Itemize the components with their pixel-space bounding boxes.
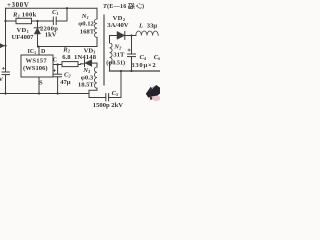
junction dot VD2-L-C4 xyxy=(130,34,132,36)
svg-text:VD1: VD1 xyxy=(17,27,30,34)
IC U1 WS157 box xyxy=(21,55,53,77)
photo fragment dark blob xyxy=(146,85,161,101)
wire VD3 to winding N3 top xyxy=(96,63,98,67)
capacitor C0 input bulk electrolytic xyxy=(2,67,10,74)
svg-text:N1: N1 xyxy=(81,13,89,20)
svg-text:1N4148: 1N4148 xyxy=(74,54,97,61)
wire C1 up to rail xyxy=(66,8,68,21)
svg-text:φ0.3: φ0.3 xyxy=(81,74,94,81)
inductor L xyxy=(136,31,158,36)
node A junction dot xyxy=(36,20,38,22)
svg-text:C6: C6 xyxy=(154,54,160,61)
node dot on left rail at R1 xyxy=(4,20,6,22)
svg-text:6.8: 6.8 xyxy=(62,54,71,61)
drain node dot xyxy=(37,45,39,47)
wire +300V top rail xyxy=(6,7,98,9)
svg-text:31T: 31T xyxy=(113,51,125,58)
svg-text:1kV: 1kV xyxy=(45,31,57,38)
junction dot C4 on negative rail xyxy=(130,70,132,72)
junction dot ground S pin xyxy=(38,92,40,94)
svg-text:IC1: IC1 xyxy=(28,49,37,55)
winding N3 feedback xyxy=(94,67,97,88)
svg-text:φ0.12: φ0.12 xyxy=(78,21,94,28)
diode VD3 xyxy=(81,60,98,67)
ground rail primary xyxy=(0,93,89,95)
svg-text:UF4007: UF4007 xyxy=(12,34,35,41)
pin C wire xyxy=(53,64,62,66)
svg-text:VD2: VD2 xyxy=(113,15,126,22)
svg-text:3A/40V: 3A/40V xyxy=(107,22,128,29)
pin D wire xyxy=(38,47,40,56)
svg-text:V: V xyxy=(0,76,4,83)
junction dot on rail xyxy=(66,7,68,9)
junction dot C5 on negative rail xyxy=(120,70,122,72)
capacitor C2 xyxy=(53,65,61,94)
svg-text:C4: C4 xyxy=(140,54,147,61)
svg-text:1500p 2kV: 1500p 2kV xyxy=(93,102,123,109)
svg-text:168T: 168T xyxy=(80,28,95,35)
pin S wire xyxy=(38,77,40,94)
resistor R2 xyxy=(62,62,81,67)
junction dot ground left xyxy=(4,92,6,94)
svg-text:47μ: 47μ xyxy=(60,79,71,86)
svg-text:WS157: WS157 xyxy=(26,58,48,65)
svg-text:R1100k: R1100k xyxy=(12,12,37,19)
label hanzi ci (magnetic) xyxy=(128,3,134,9)
svg-text:T(E—16: T(E—16 xyxy=(103,3,127,10)
svg-text:N2: N2 xyxy=(113,44,122,51)
svg-text:(φ0.51): (φ0.51) xyxy=(106,60,125,67)
svg-text:(WS106): (WS106) xyxy=(23,65,48,72)
svg-text:330μ×2: 330μ×2 xyxy=(131,62,156,69)
winding N2 secondary xyxy=(110,36,113,72)
capacitor C4 xyxy=(128,36,136,72)
capacitor C1 xyxy=(38,17,68,25)
svg-text:C2: C2 xyxy=(64,71,71,78)
label hanzi xin (core) xyxy=(136,3,141,8)
svg-text:C5: C5 xyxy=(112,90,119,97)
svg-text:18.5T: 18.5T xyxy=(78,81,95,88)
resistor R1 xyxy=(6,18,38,23)
wire primary top lead from rail xyxy=(96,8,98,19)
svg-text:R2: R2 xyxy=(62,47,70,54)
wire left vertical from rail down to bulk cap xyxy=(5,8,7,71)
output negative rail xyxy=(110,70,161,72)
svg-text:D: D xyxy=(41,49,46,55)
svg-text:C: C xyxy=(53,57,57,63)
wire drain row to primary bottom xyxy=(38,37,97,46)
svg-text:33μ: 33μ xyxy=(147,23,158,30)
capacitor C5 Y-cap link xyxy=(89,71,121,101)
winding N1 primary xyxy=(94,19,97,37)
svg-text:+300V: +300V xyxy=(7,1,29,9)
junction dot ground C2 xyxy=(57,92,59,94)
svg-text:N3: N3 xyxy=(82,67,91,74)
diode VD2 output rectifier xyxy=(110,32,137,40)
svg-text:C1: C1 xyxy=(52,9,59,16)
diode VD1 vertical clamp xyxy=(34,21,41,47)
svg-text:): ) xyxy=(142,3,144,10)
transformer core xyxy=(103,15,105,85)
wire N3 bottom to ground link xyxy=(89,88,97,97)
junction dot C pin xyxy=(57,63,59,65)
svg-text:L: L xyxy=(138,23,143,30)
wire left vertical below bulk cap to ground rail xyxy=(5,75,7,93)
node input arrow left edge xyxy=(0,44,7,48)
